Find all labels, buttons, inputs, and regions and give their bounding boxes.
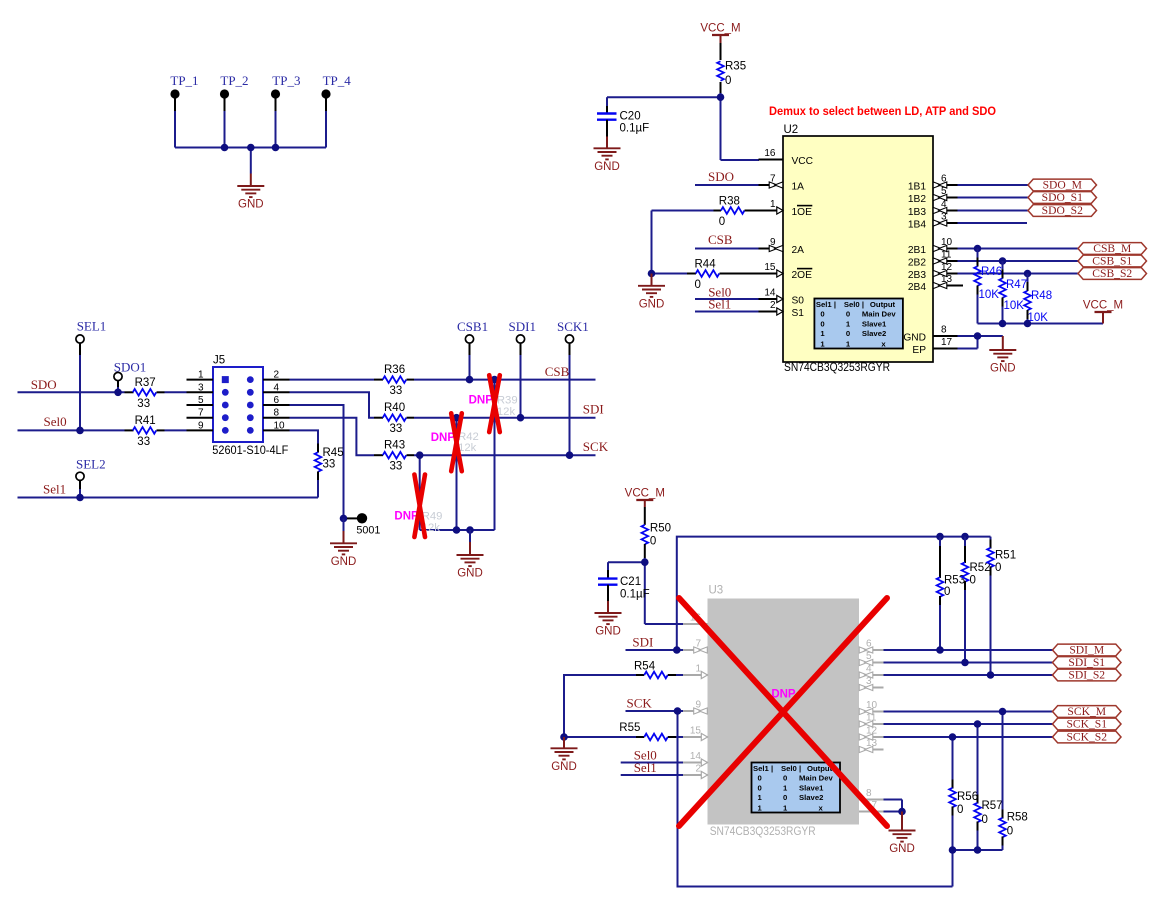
wire U3 pin 6 to port SDI_M: [884, 649, 1053, 651]
U2 pin 2 (S1): [759, 300, 805, 319]
svg-text:CSB: CSB: [545, 364, 570, 379]
svg-text:R39: R39: [497, 395, 518, 407]
U2 pin 9 (2A): [759, 237, 805, 256]
svg-text:J5: J5: [213, 355, 225, 367]
junction U3 ground: [898, 808, 906, 816]
net label SCK at U3: [627, 696, 653, 711]
junctions SDI rail top: [936, 533, 969, 541]
svg-text:0: 0: [783, 774, 787, 783]
svg-text:VCC_M: VCC_M: [700, 23, 740, 35]
svg-text:R50: R50: [650, 523, 671, 535]
svg-text:GND: GND: [990, 363, 1016, 375]
svg-text:R38: R38: [719, 196, 740, 208]
svg-text:SN74CB3Q3253RGYR: SN74CB3Q3253RGYR: [710, 825, 816, 838]
test point TP_3: [271, 73, 301, 111]
wire SDO1 stub: [117, 381, 119, 393]
wire CSB to U2 pin 9: [695, 248, 759, 250]
svg-text:Sel0: Sel0: [781, 764, 797, 773]
resistor R46 10K: [974, 249, 1002, 324]
wire U2 pin 4 to port: [958, 210, 1029, 212]
svg-text:0: 0: [650, 536, 656, 548]
svg-text:33: 33: [390, 461, 403, 473]
junctions DNP bottom rail: [453, 526, 474, 534]
IC U2 body: [783, 124, 933, 362]
wire SDI to U3 pin 7: [626, 649, 684, 651]
U3 pin 12: [859, 726, 884, 741]
net label Sel1 at U2: [708, 297, 731, 312]
svg-text:2B1: 2B1: [908, 245, 926, 256]
svg-text:SDO_M: SDO_M: [1043, 179, 1082, 192]
wire J5 pin 8 to R43: [290, 418, 375, 456]
wire Sel0 to U3 pin 14: [621, 762, 683, 764]
ground for C20: [594, 137, 621, 173]
svg-text:1: 1: [198, 370, 204, 381]
junction at test pad: [340, 515, 348, 523]
J5 pin 8: [247, 408, 290, 421]
resistor R40: [374, 402, 596, 435]
svg-text:1: 1: [846, 320, 851, 329]
U2 pin 6 (1B1): [908, 174, 958, 193]
svg-text:33: 33: [390, 385, 403, 397]
svg-text:0: 0: [970, 575, 976, 587]
svg-text:GND: GND: [903, 333, 926, 344]
junction CSB1: [466, 376, 474, 384]
U3 part number: [710, 825, 816, 838]
svg-text:U2: U2: [784, 124, 799, 136]
svg-text:GND: GND: [639, 298, 665, 310]
junctions on pullup rail: [999, 320, 1032, 328]
svg-text:CSB_M: CSB_M: [1093, 242, 1131, 255]
port SDO_S1: [1028, 191, 1097, 204]
svg-text:0.1µF: 0.1µF: [620, 589, 650, 601]
resistor R44: [687, 259, 759, 292]
junction SDI rail: [673, 646, 681, 654]
svg-text:x: x: [881, 339, 886, 348]
svg-text:R40: R40: [384, 402, 405, 414]
svg-text:U3: U3: [709, 585, 724, 597]
svg-text:0: 0: [846, 310, 850, 319]
wire SCK1 to SCK row: [569, 343, 571, 455]
U2 pin 15 (2OE): [759, 262, 813, 281]
svg-text:Sel1: Sel1: [43, 482, 66, 497]
U3 pin 13: [859, 738, 884, 753]
terminal CSB1: [457, 319, 488, 343]
svg-text:CSB: CSB: [708, 232, 733, 247]
junctions on CSB lines: [974, 245, 1032, 278]
net label SDO left: [31, 377, 57, 392]
svg-text:1: 1: [783, 803, 788, 812]
svg-text:GND: GND: [595, 626, 621, 638]
svg-text:SCK_S1: SCK_S1: [1066, 718, 1107, 731]
svg-text:CSB1: CSB1: [457, 319, 488, 334]
svg-text:0: 0: [758, 774, 762, 783]
wire U3 pins 8/17 to ground: [884, 800, 903, 812]
svg-text:1: 1: [820, 329, 825, 338]
port SDI_S1: [1053, 656, 1122, 669]
svg-text:SDI_S2: SDI_S2: [1068, 669, 1105, 682]
svg-text:Main Dev: Main Dev: [799, 774, 833, 783]
svg-text:R47: R47: [1006, 279, 1027, 291]
U3 pin 11: [859, 713, 884, 728]
ground below test pad: [330, 518, 357, 567]
port SDO_S2: [1028, 204, 1097, 217]
svg-text:SDI: SDI: [583, 402, 604, 417]
svg-text:VCC: VCC: [792, 156, 814, 167]
test point TP_2: [220, 73, 249, 111]
junction at GND tie: [648, 270, 656, 278]
U2 pin 16 (VCC): [759, 148, 814, 167]
svg-text:TP_1: TP_1: [170, 73, 198, 88]
svg-text:2: 2: [770, 300, 776, 311]
net label SDI at U3: [632, 635, 653, 650]
wire DNP R42 column: [456, 418, 458, 530]
svg-text:R57: R57: [982, 800, 1003, 812]
svg-text:14: 14: [690, 751, 702, 762]
U3 pin 8: [859, 788, 884, 800]
svg-text:R49: R49: [422, 511, 443, 523]
U2 pin 12 (2B3): [908, 262, 958, 281]
wire R50 node to C21 and U3 pin 16: [608, 558, 683, 624]
svg-text:SDI_M: SDI_M: [1069, 644, 1104, 657]
svg-text:SEL2: SEL2: [76, 457, 106, 472]
U3 pin 10: [859, 700, 884, 715]
svg-text:1: 1: [820, 339, 825, 348]
junctions SDI ports: [936, 646, 994, 679]
svg-text:5: 5: [198, 395, 204, 406]
wire Sel0 to U2 pin 14: [695, 298, 759, 300]
svg-text:1B4: 1B4: [908, 220, 926, 231]
resistor R43: [374, 440, 596, 473]
DNP marker resistor R39 12k: [469, 375, 518, 432]
J5 pin 9: [187, 420, 229, 433]
power VCC_M top: [700, 23, 740, 44]
resistor R48 10K: [1024, 274, 1052, 325]
svg-text:0: 0: [995, 562, 1001, 574]
resistor R53: [937, 537, 965, 650]
svg-text:DNP: DNP: [469, 395, 494, 407]
port SDO_M: [1028, 179, 1097, 192]
svg-text:SCK: SCK: [583, 439, 609, 454]
port CSB_S1: [1078, 255, 1147, 268]
svg-text:2: 2: [695, 764, 701, 775]
svg-text:Sel0: Sel0: [44, 414, 67, 429]
net label Sel1 at U3: [634, 760, 657, 775]
test pad 5001: [347, 513, 380, 536]
svg-text:9: 9: [198, 420, 204, 431]
svg-text:Sel1: Sel1: [634, 760, 657, 775]
svg-text:Sel0: Sel0: [844, 300, 860, 309]
terminal SEL2: [76, 457, 106, 481]
svg-text:|: |: [834, 300, 836, 309]
svg-text:0: 0: [719, 216, 725, 228]
svg-text:TP_4: TP_4: [323, 73, 352, 88]
svg-text:8: 8: [941, 325, 947, 336]
U3 pin 5: [859, 651, 884, 666]
svg-text:SN74CB3Q3253RGYR: SN74CB3Q3253RGYR: [784, 361, 890, 374]
svg-text:0: 0: [695, 279, 701, 291]
wire DNP R49 column: [419, 455, 421, 530]
svg-text:Slave1: Slave1: [862, 320, 887, 329]
svg-text:SDO_S2: SDO_S2: [1042, 204, 1083, 217]
net label CSB right: [545, 364, 570, 379]
U3 pin 14: [683, 751, 708, 766]
wire SDI rail over U3: [677, 537, 991, 650]
resistor R47 10K: [999, 261, 1027, 324]
wire SDO to U2 pin 7: [695, 184, 759, 186]
svg-text:R36: R36: [384, 364, 405, 376]
svg-text:Slave1: Slave1: [799, 784, 824, 793]
resistor R50: [642, 507, 672, 558]
wire U3 pin 4 to port SDI_S2: [884, 674, 1053, 676]
wire Sel1 to U2 pin 2: [695, 311, 759, 313]
test point TP_4: [321, 73, 351, 111]
svg-text:1: 1: [783, 784, 788, 793]
test point TP_1: [170, 73, 198, 111]
net label SCK right: [583, 439, 609, 454]
svg-text:|: |: [771, 764, 773, 773]
note: demux description: [769, 106, 996, 118]
port SDI_S2: [1053, 669, 1122, 682]
svg-text:0: 0: [758, 784, 762, 793]
junctions SCK ports: [949, 708, 1007, 741]
junction SEL1-Sel0: [76, 427, 84, 435]
svg-text:SDI: SDI: [632, 635, 653, 650]
svg-text:CSB_S1: CSB_S1: [1092, 255, 1132, 268]
svg-text:|: |: [799, 764, 801, 773]
svg-text:GND: GND: [457, 568, 483, 580]
wire DNP R39 column: [494, 380, 496, 530]
svg-text:1: 1: [846, 339, 851, 348]
ground for test points: [237, 174, 264, 211]
wire U3 pin 5 to port SDI_S1: [884, 662, 1053, 664]
wire SCK to U3 pin 9 and bottom loop: [626, 711, 953, 887]
resistor R41: [125, 415, 187, 448]
svg-text:Sel1: Sel1: [816, 300, 833, 309]
terminal SCK1: [557, 319, 589, 343]
port SCK_S1: [1053, 718, 1122, 731]
junction R42 top: [453, 414, 461, 422]
svg-text:16: 16: [764, 148, 776, 159]
net label SDO at U2: [708, 169, 734, 184]
svg-text:14: 14: [764, 288, 776, 299]
svg-text:R51: R51: [995, 550, 1016, 562]
junction at R35 bottom: [717, 93, 725, 101]
wire U2 pin 6 to port: [958, 184, 1029, 186]
svg-text:S1: S1: [792, 308, 805, 319]
svg-text:0: 0: [846, 329, 850, 338]
svg-text:52601-S10-4LF: 52601-S10-4LF: [212, 445, 288, 457]
svg-text:GND: GND: [331, 556, 357, 568]
wire U2 pins 8/17 to ground: [958, 336, 1003, 349]
DNP marker resistor R49 12k: [394, 475, 442, 538]
svg-text:VCC_M: VCC_M: [1083, 300, 1123, 312]
svg-text:33: 33: [323, 459, 336, 471]
resistor R35: [717, 43, 746, 93]
wire R56-R58 bottom rail: [953, 850, 1003, 887]
svg-text:10K: 10K: [979, 289, 1000, 301]
svg-text:R48: R48: [1031, 290, 1052, 302]
svg-text:12k: 12k: [458, 442, 477, 454]
wire Sel0 row: [18, 429, 125, 431]
ground for C21: [595, 601, 622, 638]
wire U2 pin 3 stub: [958, 222, 1028, 224]
J5 part number: [212, 445, 288, 457]
net label Sel1 left: [43, 482, 66, 497]
resistor R36: [374, 364, 596, 397]
svg-text:SCK_M: SCK_M: [1067, 705, 1106, 718]
svg-text:5001: 5001: [356, 525, 380, 537]
svg-text:2A: 2A: [792, 245, 805, 256]
U2 pin 7 (1A): [759, 174, 805, 193]
J5 pin 10: [247, 420, 290, 433]
svg-text:R58: R58: [1007, 812, 1028, 824]
U2 pin 8 (GND): [903, 325, 957, 344]
terminal SEL1: [76, 319, 106, 344]
U2 pin 11 (2B2): [908, 250, 958, 269]
wire SDI1 to SDI row: [520, 343, 522, 418]
svg-text:1: 1: [758, 803, 763, 812]
junction at R55 left: [560, 733, 568, 741]
resistor R58: [999, 712, 1028, 851]
svg-text:GND: GND: [551, 761, 577, 773]
U2 truth table: [814, 299, 903, 349]
resistor R51: [987, 537, 1016, 675]
wire SDO row: [18, 391, 125, 393]
svg-text:EP: EP: [912, 345, 926, 356]
junction at R50 bottom: [641, 558, 649, 566]
U3 pin 16: [683, 613, 708, 625]
junction SDI1: [517, 414, 525, 422]
svg-text:TP_3: TP_3: [272, 73, 300, 88]
svg-text:SDI_S1: SDI_S1: [1068, 656, 1105, 669]
svg-text:R56: R56: [957, 791, 978, 803]
wire U2 pin 10 to port CSB_M: [958, 248, 1079, 250]
wire U2 pin 12 to port CSB_S2: [958, 273, 1079, 275]
svg-text:|: |: [862, 300, 864, 309]
wire SEL2 stub: [79, 480, 81, 497]
svg-text:2OE: 2OE: [792, 270, 813, 281]
port CSB_S2: [1078, 267, 1147, 280]
svg-text:2: 2: [274, 370, 280, 381]
net label Sel0 at U2: [708, 284, 731, 299]
U3 DNP label: [771, 689, 796, 701]
svg-text:R35: R35: [725, 61, 746, 73]
svg-text:0.1µF: 0.1µF: [620, 123, 650, 135]
svg-text:Output: Output: [870, 300, 896, 309]
svg-text:SCK: SCK: [627, 696, 653, 711]
resistor R54: [564, 660, 683, 737]
svg-text:R46: R46: [981, 266, 1002, 278]
port SCK_S2: [1053, 731, 1122, 744]
svg-text:Sel1: Sel1: [753, 764, 770, 773]
svg-text:6: 6: [274, 395, 280, 406]
U2 pin 17 (EP): [912, 337, 957, 356]
svg-text:1: 1: [770, 199, 776, 210]
power VCC_M right: [1083, 300, 1123, 313]
svg-text:x: x: [819, 803, 824, 812]
svg-text:R41: R41: [135, 415, 156, 427]
U2 part number: [784, 361, 890, 374]
svg-text:R37: R37: [135, 377, 156, 389]
svg-text:33: 33: [137, 436, 150, 448]
svg-text:R52: R52: [970, 562, 991, 574]
U3 pin 4: [859, 664, 884, 679]
port SCK_M: [1053, 705, 1122, 718]
wire J5 pin 6 to test pad: [290, 405, 344, 518]
svg-text:0: 0: [1007, 826, 1013, 838]
svg-text:CSB_S2: CSB_S2: [1092, 267, 1132, 280]
svg-text:SDI1: SDI1: [509, 319, 536, 334]
resistor R52: [962, 537, 991, 663]
U3 pin 3: [859, 676, 884, 691]
net label Sel0 left: [44, 414, 67, 429]
svg-text:SDO: SDO: [708, 169, 734, 184]
svg-text:10: 10: [274, 420, 286, 431]
ground left of U3: [551, 737, 578, 773]
U2 pin 4 (1B3): [908, 199, 958, 218]
svg-text:R55: R55: [619, 722, 640, 734]
svg-text:GND: GND: [594, 161, 620, 173]
U3 pin 9: [683, 700, 708, 715]
wire VCC_M node to C20 and U2 pin 16: [607, 93, 759, 160]
ground DNP rail: [457, 530, 484, 580]
ground at U3 pins 8/17: [889, 812, 916, 856]
wire J5 pin 4 to R40: [290, 392, 375, 417]
capacitor C21: [598, 570, 650, 601]
svg-text:2B3: 2B3: [908, 270, 926, 281]
resistor R45: [315, 444, 344, 498]
wire DNP bottom rail: [420, 529, 495, 531]
junction at U2 ground: [974, 332, 982, 340]
wire J5 pin 10 to R45: [290, 430, 319, 443]
svg-text:2B2: 2B2: [908, 258, 926, 269]
connector J5 body: [213, 355, 263, 443]
ground at U2 pins 8/17: [989, 336, 1016, 375]
svg-text:R43: R43: [384, 440, 405, 452]
svg-text:Slave2: Slave2: [862, 329, 886, 338]
junction SEL2-Sel1: [76, 494, 84, 502]
resistor R37: [125, 377, 187, 410]
svg-text:4: 4: [274, 382, 280, 393]
svg-text:15: 15: [764, 262, 776, 273]
svg-text:1B1: 1B1: [908, 182, 926, 193]
svg-text:0: 0: [820, 310, 824, 319]
svg-text:DNP: DNP: [431, 432, 456, 444]
wire U2 pin 5 to port: [958, 197, 1029, 199]
svg-text:1OE: 1OE: [792, 207, 813, 218]
svg-text:R44: R44: [695, 259, 717, 271]
U3 pin 17: [859, 800, 884, 812]
DNP cross over U3: [679, 598, 887, 826]
net label Sel0 at U3: [634, 748, 657, 763]
svg-text:GND: GND: [889, 843, 915, 855]
svg-text:SDO: SDO: [31, 377, 57, 392]
U2 pin 3 (1B4): [908, 212, 958, 231]
U3 pin 2: [683, 764, 708, 779]
junction SCK1: [566, 451, 574, 459]
junction R39 top: [491, 376, 499, 384]
resistor R55: [564, 722, 683, 740]
svg-text:Main Dev: Main Dev: [862, 310, 896, 319]
J5 pin 7: [187, 408, 229, 421]
svg-text:1B3: 1B3: [908, 207, 926, 218]
port SDI_M: [1053, 644, 1122, 657]
junction R49 top: [416, 451, 424, 459]
svg-text:7: 7: [198, 408, 204, 419]
svg-text:SCK1: SCK1: [557, 319, 589, 334]
ground at U2 OE pins: [638, 274, 665, 311]
svg-text:S0: S0: [792, 296, 805, 307]
